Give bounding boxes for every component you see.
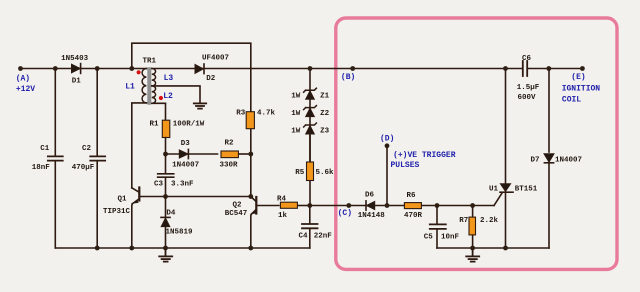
svg-text:330R: 330R xyxy=(219,161,238,169)
zener Z2 xyxy=(304,106,317,110)
svg-text:1W: 1W xyxy=(291,128,301,136)
svg-text:600V: 600V xyxy=(517,94,536,102)
svg-text:470µF: 470µF xyxy=(72,164,95,172)
svg-text:D6: D6 xyxy=(365,192,375,200)
wire: +12V top rail from node A to TR1 primary xyxy=(21,68,147,70)
svg-text:R5: R5 xyxy=(295,169,305,177)
capacitor C6 xyxy=(522,61,524,76)
resistor R6 xyxy=(404,203,421,209)
trigger module enclosure box xyxy=(336,18,617,269)
svg-text:C3: C3 xyxy=(154,181,164,189)
resistor R2 xyxy=(221,151,238,158)
diode D4 xyxy=(165,197,167,218)
svg-text:Z1: Z1 xyxy=(320,93,330,101)
wire: ground rail right xyxy=(437,247,549,249)
junction dot ground/Q1 emitter xyxy=(129,246,134,251)
capacitor C3 xyxy=(165,154,167,173)
svg-text:(D): (D) xyxy=(380,135,394,144)
svg-text:Q1: Q1 xyxy=(117,196,127,204)
svg-text:(B): (B) xyxy=(341,73,355,82)
wire: TR1 secondary bottom to R1 top xyxy=(152,103,165,120)
svg-text:C6: C6 xyxy=(522,55,532,63)
svg-text:(C): (C) xyxy=(338,209,352,218)
phase dot L2 xyxy=(159,96,163,100)
svg-text:D3: D3 xyxy=(181,140,191,148)
svg-text:UF4007: UF4007 xyxy=(202,55,229,63)
thyristor U1 xyxy=(505,69,507,185)
junction dot ground/C2 xyxy=(95,246,100,251)
svg-text:COIL: COIL xyxy=(562,95,581,104)
svg-text:D4: D4 xyxy=(166,209,176,217)
svg-text:(E): (E) xyxy=(571,73,585,82)
svg-text:1N5403: 1N5403 xyxy=(61,55,89,63)
svg-text:1N4007: 1N4007 xyxy=(172,162,199,170)
svg-text:1N4007: 1N4007 xyxy=(555,156,582,164)
svg-text:L1: L1 xyxy=(125,82,135,91)
resistor R3 xyxy=(246,112,254,129)
svg-text:C4: C4 xyxy=(298,233,308,241)
svg-text:Z2: Z2 xyxy=(320,110,330,118)
svg-text:L2: L2 xyxy=(163,92,173,101)
svg-text:TIP31C: TIP31C xyxy=(103,208,131,216)
svg-text:U1: U1 xyxy=(489,186,499,194)
svg-text:R6: R6 xyxy=(406,192,416,200)
svg-text:PULSES: PULSES xyxy=(390,161,419,170)
svg-text:L3: L3 xyxy=(164,74,174,83)
wire: R1 bottom to D3 junction xyxy=(165,138,167,154)
svg-text:R3: R3 xyxy=(236,109,246,117)
svg-text:D1: D1 xyxy=(72,78,82,86)
svg-text:1N5819: 1N5819 xyxy=(165,229,193,237)
svg-text:1W: 1W xyxy=(291,110,301,118)
junction dot trigger line/node D xyxy=(385,203,390,208)
wire: R3 bottom down to Q2 collector junction xyxy=(250,129,252,197)
capacitor C1 xyxy=(54,69,56,157)
wire: secondary top rail from TR1 to C6 xyxy=(152,68,523,70)
wire: trigger line from R4 junction to U1 gate xyxy=(310,205,494,207)
junction dot trigger line/R7 xyxy=(470,203,475,208)
junction dot rail/zener stack xyxy=(308,66,313,71)
svg-text:470R: 470R xyxy=(404,212,423,220)
diode D3 xyxy=(166,153,218,155)
svg-text:IGNITION: IGNITION xyxy=(562,85,601,94)
svg-text:R1: R1 xyxy=(149,121,159,129)
svg-text:2.2k: 2.2k xyxy=(480,217,499,225)
svg-text:4.7k: 4.7k xyxy=(257,110,276,118)
junction dot R2/R3 xyxy=(248,152,253,157)
node D xyxy=(385,143,390,148)
svg-text:1k: 1k xyxy=(278,212,288,220)
phase dot L1 xyxy=(137,70,141,74)
node E xyxy=(580,66,585,71)
svg-text:1N4148: 1N4148 xyxy=(358,212,386,220)
junction dot ground/D4 xyxy=(163,246,168,251)
junction dot ground/R7 xyxy=(470,246,475,251)
junction dot rail/C2 xyxy=(95,66,100,71)
svg-text:TR1: TR1 xyxy=(143,58,157,66)
capacitor C4 xyxy=(309,206,311,224)
wire: TR1 primary bottom to Q1 collector xyxy=(132,103,147,188)
svg-text:100R/1W: 100R/1W xyxy=(173,121,205,129)
ground: right symbol xyxy=(466,248,479,262)
junction dot rail/C1 xyxy=(53,66,58,71)
transformer TR1 primary winding L1 xyxy=(142,69,146,103)
svg-text:22nF: 22nF xyxy=(314,233,333,241)
diode D6 xyxy=(365,201,367,210)
ground: main left symbol xyxy=(159,248,172,262)
wire: R3 feed loop from primary junction xyxy=(132,43,251,111)
zener Z1 xyxy=(304,88,317,92)
capacitor C5 xyxy=(436,206,438,225)
junction dot rail/D7 xyxy=(546,66,551,71)
svg-text:C1: C1 xyxy=(40,145,50,153)
junction dot rail/TR1 primary xyxy=(129,66,134,71)
svg-text:R4: R4 xyxy=(277,196,287,204)
svg-text:(A): (A) xyxy=(16,75,30,84)
svg-text:C5: C5 xyxy=(424,234,434,242)
svg-text:18nF: 18nF xyxy=(32,164,51,172)
svg-text:D2: D2 xyxy=(206,75,216,83)
svg-text:R2: R2 xyxy=(224,140,234,148)
wire: Q1 emitter to ground rail xyxy=(131,204,134,248)
zener Z3 xyxy=(304,123,317,127)
wire: ground rail left xyxy=(55,247,309,249)
svg-text:+12V: +12V xyxy=(16,85,35,94)
node C xyxy=(346,203,351,208)
transistor Q1 xyxy=(138,188,140,201)
wire: zener stack column xyxy=(309,69,311,163)
svg-text:Q2: Q2 xyxy=(232,202,242,210)
node A xyxy=(18,66,23,71)
svg-text:C2: C2 xyxy=(82,145,92,153)
svg-text:(+)VE TRIGGER: (+)VE TRIGGER xyxy=(393,151,456,160)
resistor R1 xyxy=(162,120,170,137)
svg-text:R7: R7 xyxy=(459,217,468,225)
capacitor C2 xyxy=(96,69,98,157)
svg-text:1.5µF: 1.5µF xyxy=(517,84,540,92)
wire: TR1 center tap to ground xyxy=(152,86,200,103)
svg-text:BT151: BT151 xyxy=(515,186,538,194)
transistor Q2 xyxy=(255,197,257,214)
junction dot R4/R5/C4 xyxy=(307,203,312,208)
wire: rail from C6 to node E xyxy=(528,68,583,70)
wire: Q2 emitter to ground rail xyxy=(250,214,253,248)
svg-text:D7: D7 xyxy=(530,156,539,164)
svg-text:10nF: 10nF xyxy=(441,234,460,242)
junction dot C3/D4/base line xyxy=(163,194,168,199)
junction dot ground/U1 cathode xyxy=(503,246,508,251)
transformer TR1 core xyxy=(147,67,151,104)
diode D7 xyxy=(548,69,550,153)
diode D1 xyxy=(72,64,81,73)
node B xyxy=(350,66,355,71)
resistor R4 xyxy=(280,202,297,208)
svg-text:5.6k: 5.6k xyxy=(315,169,334,177)
junction dot R1/D3/C3 xyxy=(163,152,168,157)
diode D2 xyxy=(195,64,203,73)
junction dot trigger line/C5 xyxy=(435,203,440,208)
junction dot ground/Q2 emitter xyxy=(248,246,253,251)
resistor R7 xyxy=(472,206,474,218)
svg-text:BC547: BC547 xyxy=(225,210,248,218)
transformer TR1 secondary winding L2 xyxy=(152,86,156,103)
junction dot rail/U1 anode xyxy=(503,66,508,71)
svg-text:1W: 1W xyxy=(291,93,301,101)
junction dot Q2 collector xyxy=(248,194,253,199)
ground: TR1 center tap xyxy=(194,103,206,108)
resistor R5 xyxy=(309,132,311,205)
wire: trigger input drop from node D xyxy=(386,146,388,206)
svg-text:3.3nF: 3.3nF xyxy=(171,181,194,189)
wire: base line Q1 to Q2 collector xyxy=(139,196,251,198)
transformer TR1 secondary winding L3 xyxy=(152,69,156,86)
svg-text:Z3: Z3 xyxy=(320,128,330,136)
